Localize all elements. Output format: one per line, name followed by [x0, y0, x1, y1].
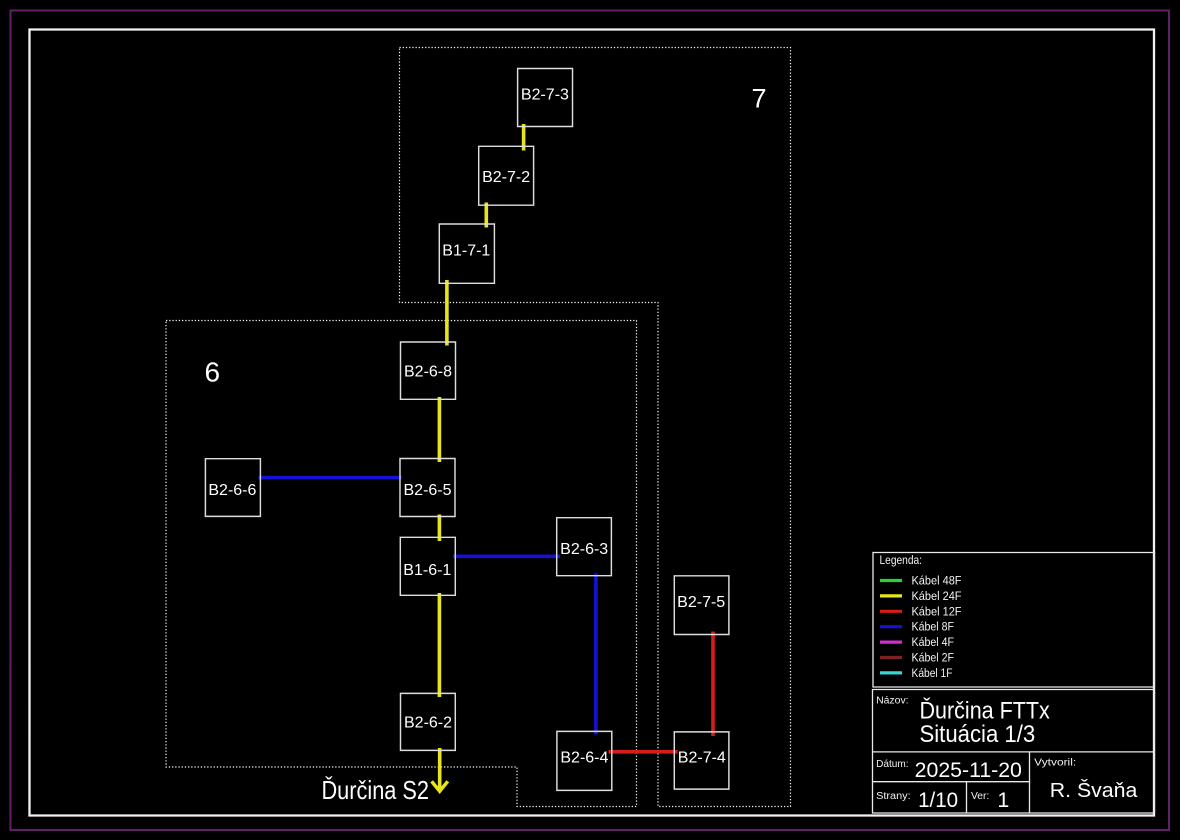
box B1-6-1: [400, 537, 455, 595]
cable 24F yellow B2-7-3 to B2-7-2: [522, 124, 526, 151]
svg-text:2025-11-20: 2025-11-20: [915, 758, 1022, 782]
region 6 dotted boundary: [166, 320, 637, 806]
box B2-7-4: [674, 732, 729, 789]
box B2-6-5: [400, 458, 455, 516]
svg-text:6: 6: [205, 356, 221, 387]
svg-text:1/10: 1/10: [918, 788, 958, 812]
box B2-6-6: [205, 459, 260, 517]
svg-text:R. Švaňa: R. Švaňa: [1050, 779, 1138, 802]
svg-text:B2-6-2: B2-6-2: [404, 714, 452, 731]
legend swatch 24F: [880, 589, 962, 603]
legend box: [873, 553, 1155, 688]
svg-text:B2-7-5: B2-7-5: [677, 594, 725, 611]
cable 24F yellow B2-7-2 to B1-7-1: [485, 202, 489, 227]
svg-text:B1-6-1: B1-6-1: [403, 562, 451, 579]
legend swatch 1F: [880, 666, 953, 680]
svg-text:B2-7-4: B2-7-4: [678, 749, 726, 766]
cable 8F blue B2-6-6 to B2-6-5: [258, 476, 401, 480]
cable 24F yellow B2-6-8 to B2-6-5: [438, 397, 442, 462]
title block frame: [872, 690, 1154, 814]
box B2-6-3: [557, 518, 612, 576]
svg-text:1: 1: [997, 788, 1009, 812]
svg-text:Legenda:: Legenda:: [879, 553, 922, 567]
box B1-7-1: [439, 224, 494, 283]
svg-text:Strany:: Strany:: [876, 791, 911, 802]
legend swatch 12F: [880, 604, 962, 618]
svg-text:Kábel 12F: Kábel 12F: [911, 604, 961, 618]
cable 8F blue B1-6-1 to B2-6-3: [453, 554, 560, 558]
box B2-6-8: [401, 342, 456, 399]
svg-text:Kábel 4F: Kábel 4F: [911, 635, 954, 649]
svg-text:Kábel 24F: Kábel 24F: [911, 589, 961, 603]
svg-text:B2-6-8: B2-6-8: [404, 364, 452, 381]
cable 24F yellow B2-6-5 to B1-6-1: [438, 514, 442, 541]
svg-text:Ďurčina S2: Ďurčina S2: [321, 775, 429, 805]
svg-text:7: 7: [752, 84, 767, 114]
cable 24F yellow B1-7-1 to B2-6-8: [445, 280, 449, 346]
box B2-7-5: [674, 576, 729, 635]
svg-text:Kábel 1F: Kábel 1F: [911, 666, 952, 680]
cable 24F yellow B2-6-2 to Durcina S2 arrow: [432, 748, 448, 791]
region 7 dotted boundary: [399, 47, 790, 806]
svg-text:B2-6-5: B2-6-5: [403, 482, 451, 499]
legend swatch 8F: [880, 620, 954, 634]
cable 8F blue B2-6-3 to B2-6-4: [594, 574, 598, 735]
svg-text:B2-6-6: B2-6-6: [208, 482, 256, 499]
svg-text:Kábel 2F: Kábel 2F: [911, 651, 954, 665]
svg-text:Vytvoril:: Vytvoril:: [1034, 758, 1076, 769]
svg-text:B1-7-1: B1-7-1: [442, 243, 490, 260]
svg-text:Kábel 48F: Kábel 48F: [911, 574, 961, 588]
legend swatch 4F: [880, 635, 954, 649]
legend swatch 2F: [880, 651, 954, 665]
svg-text:Ver:: Ver:: [971, 791, 989, 802]
svg-text:B2-6-4: B2-6-4: [560, 749, 608, 766]
cable 24F yellow B1-6-1 to B2-6-2: [438, 593, 442, 697]
cable 12F red B2-7-5 to B2-7-4: [711, 632, 715, 737]
legend swatch 48F: [880, 574, 962, 588]
svg-text:Situácia 1/3: Situácia 1/3: [919, 721, 1035, 748]
svg-text:B2-7-3: B2-7-3: [521, 87, 569, 104]
box B2-7-3: [518, 68, 573, 126]
svg-text:Názov:: Názov:: [876, 696, 909, 707]
svg-text:Kábel 8F: Kábel 8F: [911, 620, 954, 634]
svg-text:B2-7-2: B2-7-2: [482, 169, 530, 186]
box B2-7-2: [479, 146, 534, 205]
svg-text:B2-6-3: B2-6-3: [560, 541, 608, 558]
box B2-6-2: [400, 693, 455, 750]
cable 12F red B2-6-4 to B2-7-4: [608, 750, 677, 754]
svg-text:Dátum:: Dátum:: [876, 759, 909, 770]
box B2-6-4: [557, 731, 612, 790]
